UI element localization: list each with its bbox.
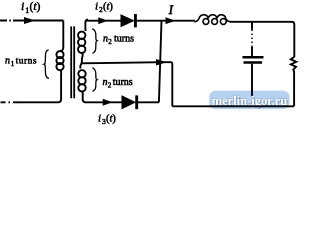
label i2(t)	[95, 0, 113, 14]
wire secondary top lead	[85, 20, 88, 31]
wire top-left input (dash-dot lead-in)	[0, 20, 14, 22]
label i1(t)	[21, 0, 41, 15]
wire bottom-left (dash-dot lead-out)	[0, 101, 18, 103]
inductor L	[195, 15, 231, 25]
svg-text:1: 1	[11, 60, 15, 68]
brace for n1 turns	[44, 50, 49, 79]
svg-text:n: n	[103, 34, 108, 45]
label n2 turns (upper)	[103, 34, 134, 47]
diode D1	[121, 15, 134, 27]
wire junction to inductor	[162, 20, 196, 22]
secondary lower winding n2 (3 loops)	[80, 63, 81, 68]
resistor R load zigzag	[291, 57, 297, 107]
label I	[168, 3, 174, 17]
wire lower rail from secondary to diode	[85, 101, 123, 103]
brace upper n2	[92, 29, 97, 54]
current arrow i1	[25, 18, 34, 24]
current arrow I	[166, 18, 174, 23]
wire primary top lead	[62, 21, 64, 48]
label n2 turns (lower)	[103, 77, 133, 90]
svg-text:i: i	[95, 0, 98, 12]
brace lower n2	[92, 68, 97, 92]
wire center-tap return (down)	[171, 62, 172, 106]
svg-text:2: 2	[108, 82, 112, 90]
wire bottom rail	[172, 105, 294, 107]
svg-text:i: i	[21, 0, 24, 13]
node junction / wire down from top rail	[159, 21, 162, 103]
svg-text:I: I	[168, 3, 174, 17]
arrow center tap	[157, 60, 166, 65]
wire D1 to junction	[135, 20, 161, 22]
wire bottom rail over watermark	[209, 105, 289, 107]
wire inductor to right corner	[230, 22, 294, 57]
svg-text:(t): (t)	[30, 1, 41, 13]
current arrow i3	[103, 100, 111, 106]
svg-text:(t): (t)	[103, 1, 113, 12]
node capacitor junction / cap top lead (partly dotted)	[251, 22, 253, 30]
current arrow i2	[99, 18, 107, 23]
wire secondary bottom lead	[82, 91, 85, 102]
svg-text:2: 2	[108, 38, 112, 46]
transformer core	[70, 26, 72, 98]
svg-text:i: i	[98, 113, 101, 125]
svg-text:turns: turns	[113, 77, 133, 88]
wire primary bottom lead	[17, 74, 61, 102]
label i3(t)	[98, 113, 116, 127]
svg-text:turns: turns	[114, 34, 134, 45]
watermark box	[209, 91, 289, 110]
capacitor bottom lead	[251, 64, 253, 107]
svg-text:turns: turns	[16, 56, 37, 66]
capacitor C plates	[243, 56, 264, 59]
svg-text:n: n	[5, 55, 10, 66]
diode D2	[122, 96, 135, 109]
svg-text:n: n	[103, 77, 108, 88]
primary winding n1 (3 loops)	[61, 46, 64, 51]
wire center tap with arrow	[82, 62, 172, 63]
wire D2 to vertical	[137, 101, 160, 103]
wire secondary top rail	[86, 20, 122, 22]
capacitor lead over watermark	[251, 90, 253, 96]
label n1 turns	[5, 55, 37, 68]
secondary upper winding n2 (3 loops)	[78, 32, 85, 39]
watermark text merlin-igor.ru	[212, 94, 289, 109]
svg-text:(t): (t)	[106, 114, 116, 125]
wire top-left to transformer	[13, 20, 63, 22]
